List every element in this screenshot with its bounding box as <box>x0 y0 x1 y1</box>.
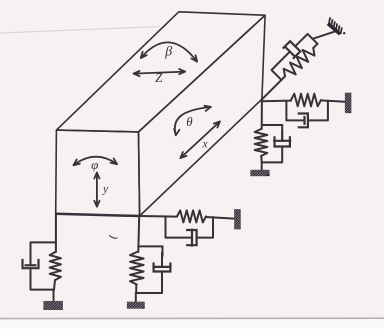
rigid block front face <box>56 130 140 216</box>
wire: bottom junction B <box>136 292 162 294</box>
wire: rod from block BR corner <box>137 216 140 252</box>
wire: branch to damper A <box>31 241 56 243</box>
wire: rod from block rear corner down <box>261 99 263 129</box>
damper C5 (mid dashpot) <box>166 229 214 247</box>
wire: spring K2 lower lead <box>135 285 137 294</box>
spring K1 (front-left vertical) <box>50 252 61 280</box>
wire: branch to damper C3 <box>262 124 283 126</box>
wire: rod to ground A <box>53 290 55 302</box>
wire: rod from BR corner to right <box>140 215 177 218</box>
svg-text:θ: θ <box>186 114 193 129</box>
wire: branch to damper B <box>138 245 162 247</box>
faint page crease <box>0 27 160 34</box>
stray pen mark <box>110 236 118 239</box>
wire: damper C2 upper rod <box>162 246 164 256</box>
wire: spring K6 upper lead <box>313 44 317 48</box>
svg-text:φ: φ <box>91 157 98 172</box>
wire: diagonal rod from rear corner <box>262 80 281 99</box>
damper C4 (horizontal dashpot) <box>286 114 328 128</box>
wire: rod to ground B <box>135 293 137 302</box>
damper C3 (rear vertical dashpot) <box>273 130 291 162</box>
theta rotation arc <box>175 107 211 135</box>
spring K3 (rear vertical) <box>255 129 268 156</box>
svg-text:x: x <box>201 139 208 151</box>
wall anchor diagonal (hatched) <box>328 17 346 34</box>
Z translation arrow <box>134 72 186 74</box>
wire: spring K3 lower lead <box>260 156 262 162</box>
rigid block right face <box>139 15 266 216</box>
phi rotation arc <box>74 157 118 165</box>
wire: spring K1 lower lead <box>54 280 55 290</box>
spring K2 (front-right vertical) <box>130 252 144 285</box>
wire: damper C4 branch rise <box>327 102 329 121</box>
spring K6 (diagonal) <box>284 48 315 76</box>
wire: diagonal end bar lower <box>272 70 282 80</box>
wire: spring K5 right lead to wall <box>206 217 234 219</box>
wire: spring K6 lower lead <box>281 76 285 80</box>
y translation arrow <box>96 173 98 207</box>
x translation arrow <box>180 122 220 159</box>
wire: diagonal end bar upper <box>308 34 318 44</box>
wire: damper C5 branch drop <box>165 217 167 238</box>
wire: rod from block BL corner <box>55 214 57 252</box>
spring K4 (horizontal right) <box>291 94 321 107</box>
wire: damper C3 upper rod <box>281 125 283 141</box>
wire: damper C1 upper rod <box>30 242 32 265</box>
wire: spring K4 right lead to wall <box>321 100 345 101</box>
wire: rod to diagonal wall <box>313 31 336 39</box>
damper C1 (front-left dashpot) <box>23 252 39 290</box>
scan artifact line bottom <box>0 317 384 319</box>
wire: damper C5 branch rise <box>212 217 214 238</box>
rigid block top face <box>56 12 265 132</box>
wire: damper C4 branch drop <box>285 101 287 121</box>
wire: rod to ground C <box>261 162 263 170</box>
wire: bottom junction A <box>31 289 55 291</box>
damper C2 (front-right dashpot) <box>152 252 171 293</box>
spring K5 (horizontal mid) <box>177 210 206 222</box>
wire: bottom junction C <box>262 161 283 163</box>
rigid block bottom edge (heavy) <box>56 214 140 216</box>
beta rotation arc <box>141 42 197 61</box>
svg-text:Z: Z <box>155 70 163 85</box>
damper C6 (diagonal dashpot) <box>272 34 308 70</box>
wire: rod from rear corner to right <box>262 100 291 103</box>
svg-text:y: y <box>102 184 109 196</box>
svg-text:β: β <box>164 45 172 60</box>
